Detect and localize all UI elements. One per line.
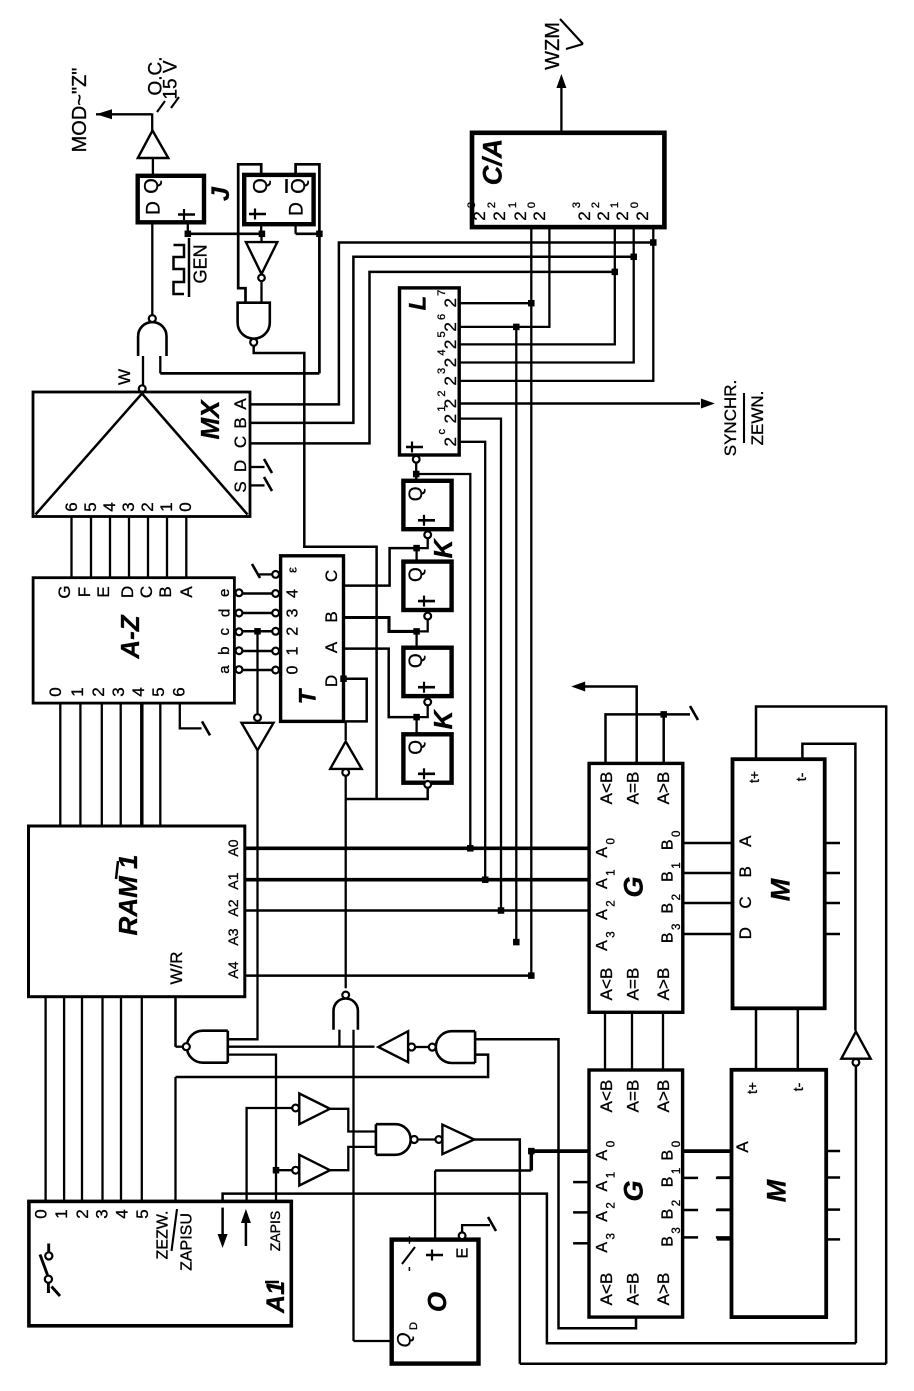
svg-text:B: B — [660, 1150, 677, 1161]
block A-Z — [33, 578, 234, 703]
svg-text:C: C — [736, 896, 755, 908]
svg-text:A>B: A>B — [654, 1273, 673, 1306]
svg-text:2: 2 — [594, 211, 613, 220]
wire RAM-A1blk — [141, 997, 143, 1202]
wire M2 dash — [717, 1208, 732, 1211]
junction A0-V2 — [467, 845, 474, 852]
svg-text:A: A — [594, 1242, 611, 1253]
wire a-e link — [242, 630, 272, 633]
svg-text:6: 6 — [436, 314, 448, 320]
wire NAND1 out to FF1 D — [151, 222, 153, 315]
wire a-e link — [242, 650, 272, 653]
svg-text:2: 2 — [89, 687, 108, 696]
wire NAND-W out — [176, 1046, 183, 1048]
svg-text:A: A — [594, 878, 611, 889]
wire: amp to FF1 Q — [152, 158, 154, 176]
arrowhead WZM — [556, 74, 566, 88]
wire G2-M2 dash — [683, 1177, 699, 1180]
junction c row — [254, 628, 261, 635]
svg-text:b: b — [216, 647, 233, 655]
pin circle A-Z a — [236, 666, 243, 673]
inverter INV-G (clock) — [260, 234, 262, 242]
svg-text:A: A — [594, 1211, 611, 1222]
wire C/A R2^1 — [459, 227, 634, 362]
svg-text:15 V: 15 V — [161, 60, 182, 99]
wire M1 nc stub — [825, 902, 840, 905]
junction L p2 — [513, 324, 520, 331]
buffer BUF2 — [299, 1155, 330, 1186]
wire c south — [256, 631, 258, 714]
wire G2 nc stub — [573, 1181, 589, 1184]
wire MX-AZ — [90, 517, 92, 579]
svg-text:0: 0 — [32, 1209, 51, 1218]
svg-text:A0: A0 — [225, 839, 241, 856]
junction zapis — [273, 1167, 280, 1174]
svg-text:ZAPIS: ZAPIS — [267, 1211, 283, 1251]
label L clk + — [411, 442, 413, 453]
svg-text:4: 4 — [285, 589, 302, 598]
MX triangle — [36, 394, 143, 515]
bubble INV-M — [853, 1059, 860, 1066]
MX pin D tick — [250, 466, 265, 468]
wire G1 A>B stub — [662, 714, 665, 763]
svg-text:1: 1 — [68, 687, 87, 696]
wire M2 nc stub — [826, 1238, 840, 1241]
wire bus3 — [520, 1363, 886, 1366]
wire MX-AZ — [70, 517, 72, 579]
svg-text:0: 0 — [629, 202, 641, 208]
svg-text:2: 2 — [530, 211, 549, 220]
svg-text:t+: t+ — [744, 1082, 760, 1094]
wire C/A R2^2 — [459, 227, 615, 344]
A1 arrow up — [241, 1209, 251, 1223]
svg-text:0: 0 — [606, 838, 618, 844]
svg-text:3: 3 — [119, 502, 138, 511]
svg-text:A=B: A=B — [623, 772, 642, 805]
label FF1 clk + — [183, 209, 185, 220]
wire M2 nc stub — [826, 1150, 840, 1153]
svg-text:6: 6 — [62, 502, 81, 511]
wire INV-T south — [228, 750, 258, 1039]
svg-text:1: 1 — [157, 502, 176, 511]
wire G2 B0 to M2 A — [683, 1149, 732, 1153]
junction B-2^1 — [630, 254, 637, 260]
wire FF2 Q loop — [238, 164, 261, 302]
nand NAND-G — [238, 303, 270, 339]
wire AZ pin6 tick — [180, 703, 202, 728]
svg-text:K: K — [428, 708, 458, 729]
wire M1 t- loop — [802, 744, 855, 1031]
svg-text:A: A — [231, 398, 250, 410]
wire bus3 up — [756, 707, 886, 1364]
wire bus3 riser — [519, 1171, 522, 1364]
flip-flop K box1 — [403, 481, 451, 529]
svg-text:1: 1 — [606, 1172, 618, 1178]
wire G cascade — [631, 1012, 633, 1070]
block L — [400, 288, 460, 455]
svg-text:B: B — [660, 932, 677, 943]
svg-text:A: A — [594, 1149, 611, 1160]
svg-text:Q: Q — [406, 740, 427, 755]
svg-text:0: 0 — [176, 502, 195, 511]
wire C/A L2^0 stub — [459, 227, 549, 327]
block G1 — [589, 763, 683, 1012]
wire MX B line — [250, 257, 634, 423]
wire M1 nc stub — [825, 933, 840, 936]
wire G2 nc stub — [573, 1211, 589, 1214]
wire L p7 — [459, 419, 501, 911]
wire INV-W to NAND3 — [415, 1046, 429, 1048]
pin circle A-Z b — [236, 647, 243, 654]
svg-text:A1: A1 — [262, 1281, 290, 1314]
svg-text:1: 1 — [671, 1168, 683, 1174]
wire M2 nc stub — [826, 1176, 840, 1179]
svg-text:2: 2 — [606, 900, 618, 906]
label O + — [431, 1250, 433, 1261]
junction L clk — [413, 471, 420, 478]
flip-flop FF1 — [138, 176, 204, 223]
svg-text:B: B — [660, 1209, 677, 1220]
svg-text:Q: Q — [395, 1332, 416, 1347]
svg-text:B: B — [156, 586, 175, 597]
svg-text:A: A — [322, 641, 341, 653]
wire MX-AZ — [147, 517, 149, 579]
wire M2 dash — [717, 1238, 732, 1241]
wire A1 pulse out — [223, 1194, 856, 1344]
wire M1 nc stub — [825, 842, 840, 845]
inverter INV2 — [442, 1125, 474, 1155]
wire T e tick — [259, 573, 273, 575]
bubble INV-K — [342, 769, 349, 776]
svg-text:2: 2 — [606, 1202, 618, 1208]
bubble K box2 out — [424, 613, 431, 620]
GEN label rule — [188, 238, 191, 297]
wire G1 A=B arrow — [585, 687, 637, 764]
node W circle — [139, 385, 146, 392]
svg-text:SYNCHR.: SYNCHR. — [721, 380, 740, 457]
pin circle A-Z d — [236, 610, 243, 617]
svg-text:A=B: A=B — [623, 1080, 642, 1113]
wire RAM-A1blk — [120, 997, 122, 1202]
svg-text:0: 0 — [285, 665, 302, 674]
svg-text:A<B: A<B — [597, 1273, 616, 1306]
svg-text:2: 2 — [285, 627, 302, 636]
svg-text:1: 1 — [671, 862, 683, 868]
bubble INV-W in — [408, 1044, 415, 1051]
bubble NAND-W — [183, 1043, 190, 1050]
wire a-e link — [242, 612, 272, 615]
wire T C out — [344, 548, 417, 586]
wire NAND-U leg2 — [352, 1030, 354, 1341]
wire MX-AZ — [128, 517, 130, 579]
wire NAND-W in2 (long) — [228, 1046, 375, 1048]
svg-text:4: 4 — [129, 687, 148, 696]
wire RAM-A1blk — [63, 997, 65, 1202]
svg-text:d: d — [216, 609, 233, 617]
bubble INV2 in — [435, 1136, 442, 1143]
wire clk east V2 — [416, 474, 470, 848]
svg-text:Q: Q — [141, 178, 163, 194]
junction K link 2 — [413, 628, 420, 635]
arrowhead MOD — [96, 109, 112, 119]
wire NAND-G out east — [254, 346, 377, 799]
wire bus2 riser — [855, 1066, 858, 1343]
block M2 — [732, 1070, 827, 1317]
svg-text:2: 2 — [671, 894, 683, 900]
wire node link — [435, 1169, 531, 1172]
A1 arrow down — [221, 1208, 224, 1236]
svg-text:2: 2 — [511, 211, 530, 220]
svg-text:0: 0 — [671, 831, 683, 837]
svg-text:1: 1 — [436, 406, 448, 412]
wire RAM A4 row — [245, 974, 532, 977]
wire buf1 out — [330, 1109, 376, 1132]
wire M1 nc stub — [825, 872, 840, 875]
label FF2 clk + — [254, 209, 256, 220]
svg-text:1: 1 — [507, 202, 519, 208]
svg-text:A<B: A<B — [597, 772, 616, 805]
svg-text:D: D — [118, 586, 137, 598]
junction C-2^2 — [612, 269, 619, 276]
wire M1-M2 b — [797, 1008, 800, 1070]
svg-text:T: T — [294, 687, 321, 704]
wire FF1 clock stub — [187, 222, 189, 234]
bubble NAND3 out — [429, 1044, 436, 1051]
wire GEN clock line — [188, 232, 262, 235]
svg-text:5: 5 — [149, 687, 168, 696]
junction A-2^0 — [650, 239, 657, 246]
SYNCHR rule — [743, 393, 745, 443]
wire L p6 SYNCHR — [459, 402, 700, 405]
svg-text:A: A — [177, 586, 196, 598]
svg-text:3: 3 — [436, 368, 448, 374]
wire box1 top — [415, 474, 417, 481]
wire MX-AZ — [166, 517, 168, 579]
bubble buf1 — [292, 1105, 299, 1112]
svg-text:ZEZW.: ZEZW. — [155, 1211, 172, 1260]
svg-text:2: 2 — [441, 414, 460, 423]
inverter INV-M — [841, 1032, 870, 1059]
svg-text:E: E — [94, 586, 113, 597]
inverter INV-K — [330, 741, 362, 769]
svg-text:B: B — [736, 866, 755, 877]
svg-text:Q: Q — [250, 178, 272, 194]
wire L p8 — [459, 442, 485, 880]
svg-text:2: 2 — [441, 358, 460, 367]
svg-text:C: C — [231, 436, 250, 448]
wire INV-K south — [345, 776, 347, 988]
wire: MOD output with arrow — [96, 113, 152, 115]
junction p2 end — [513, 939, 520, 946]
svg-text:0: 0 — [526, 202, 538, 208]
nand NAND-U (up) — [334, 999, 358, 1030]
WZM mark — [560, 19, 583, 44]
svg-text:C/A: C/A — [477, 139, 507, 186]
svg-text:Q: Q — [406, 567, 427, 582]
svg-text:-: - — [400, 1267, 417, 1272]
junction L p1 — [528, 300, 535, 307]
bubble buf2 — [292, 1167, 299, 1174]
svg-text:Q: Q — [406, 486, 427, 501]
svg-text:4: 4 — [100, 502, 119, 511]
svg-text:A-Z: A-Z — [115, 614, 145, 659]
svg-text:2: 2 — [73, 1209, 92, 1218]
svg-text:2: 2 — [441, 437, 460, 446]
svg-text:GEN: GEN — [190, 244, 210, 283]
nand NAND2 — [376, 1124, 411, 1155]
wire AZ-RAM — [101, 703, 103, 826]
wire T D loop — [344, 679, 367, 722]
svg-text:2: 2 — [486, 202, 498, 208]
junction A1 — [482, 876, 489, 883]
block A1 — [29, 1201, 291, 1325]
wire G2-M2 dash — [683, 1209, 699, 1212]
label K1 + — [423, 515, 425, 526]
svg-text:D: D — [322, 675, 341, 687]
svg-text:A>B: A>B — [654, 1080, 673, 1113]
svg-text:W/R: W/R — [167, 951, 186, 984]
svg-text:2: 2 — [138, 502, 157, 511]
block O — [392, 1240, 479, 1364]
bubble K box1 out — [424, 531, 431, 538]
svg-text:c: c — [216, 628, 233, 636]
wire RAM-A1blk — [101, 997, 103, 1202]
svg-text:M: M — [765, 878, 795, 901]
svg-text:2: 2 — [441, 322, 460, 331]
wire INV-G out — [260, 281, 262, 303]
wire RAM-A1blk — [81, 997, 83, 1202]
svg-text:Q: Q — [406, 653, 427, 668]
flip-flop FF2 (J divider) — [244, 175, 313, 224]
wire Qbar to NAND1 input — [160, 372, 319, 375]
wire AZ-RAM — [120, 703, 122, 826]
block C/A — [472, 133, 664, 227]
svg-text:3: 3 — [606, 1233, 618, 1239]
wire O clk riser — [434, 1171, 436, 1240]
wire MX-AZ — [185, 517, 187, 579]
bubble NAND1 — [149, 315, 156, 322]
pin circle T — [272, 590, 279, 597]
wire a-e link — [242, 592, 272, 595]
wire M2 nc stub — [826, 1208, 840, 1211]
svg-text:W: W — [115, 369, 134, 385]
wire NAND-U leg1 — [338, 1030, 340, 1047]
arrowhead SYNCHR — [701, 399, 715, 409]
junction Qbar/D — [316, 231, 323, 238]
wire O E tick — [462, 1225, 490, 1232]
wire a-e link — [242, 669, 272, 672]
svg-text:2: 2 — [470, 211, 489, 220]
svg-text:t-: t- — [793, 772, 809, 781]
svg-text:A=B: A=B — [623, 968, 642, 1001]
buffer BUF1 — [299, 1094, 330, 1125]
svg-text:WZM: WZM — [542, 22, 564, 70]
wire RAM A0 row — [245, 846, 589, 850]
wire FF2 D feedback — [294, 224, 296, 234]
bubble K box4 out — [424, 781, 431, 788]
svg-text:B: B — [660, 903, 677, 914]
svg-text:B: B — [660, 839, 677, 850]
svg-text:E: E — [455, 1248, 472, 1259]
wire MX A line — [250, 243, 653, 405]
svg-text:A>B: A>B — [654, 772, 673, 805]
junction FF2 clk — [259, 231, 266, 238]
wire D to inv — [345, 721, 347, 740]
svg-text:0: 0 — [46, 687, 65, 696]
pin circle A-Z e — [236, 589, 243, 596]
svg-text:4: 4 — [436, 349, 448, 355]
svg-text:D: D — [231, 460, 250, 472]
wire G1-M1 — [683, 933, 733, 936]
label K4 + — [423, 768, 425, 779]
wire NAND1 in legs — [142, 356, 144, 385]
svg-text:1: 1 — [52, 1209, 71, 1218]
15V mark — [171, 97, 179, 108]
svg-text:2: 2 — [590, 202, 602, 208]
svg-text:2: 2 — [441, 376, 460, 385]
wire T B out — [344, 618, 417, 632]
bubble INV-G — [258, 275, 265, 282]
svg-text:D: D — [736, 927, 755, 939]
svg-text:c: c — [436, 429, 448, 435]
svg-text:A<B: A<B — [597, 1080, 616, 1113]
wire buf2 out — [330, 1147, 376, 1170]
wire K link 3 — [417, 705, 428, 717]
svg-text:D: D — [144, 201, 165, 215]
wire box4 out — [346, 788, 428, 799]
svg-text:5: 5 — [81, 502, 100, 511]
label K2 + — [423, 596, 425, 607]
label K3 + — [423, 682, 425, 693]
wire G2A0 link — [530, 1151, 534, 1170]
wire L clk link — [415, 463, 417, 481]
wire L p1 south — [530, 303, 532, 975]
svg-text:t-: t- — [790, 1082, 806, 1091]
svg-text:A>B: A>B — [654, 968, 673, 1001]
svg-text:A<B: A<B — [597, 968, 616, 1001]
svg-text:ZAPISU: ZAPISU — [179, 1213, 196, 1271]
svg-text:2: 2 — [671, 1200, 683, 1206]
wire T A out — [344, 649, 417, 718]
wire AZ-RAM — [59, 703, 61, 826]
pin circle T — [272, 667, 279, 674]
junction FF1 clk — [185, 231, 192, 238]
junction K link 3 — [413, 714, 420, 721]
bubble O E — [459, 1232, 466, 1239]
OC mark — [157, 101, 165, 112]
svg-text:0: 0 — [671, 1141, 683, 1147]
svg-text:A: A — [594, 847, 611, 858]
wire buf2 in — [276, 1169, 292, 1171]
svg-text:D: D — [408, 1322, 420, 1330]
svg-text:ε: ε — [285, 567, 300, 573]
bubble NAND-U — [342, 992, 349, 999]
wire K link 1 — [417, 538, 428, 548]
svg-text:A3: A3 — [225, 928, 241, 945]
pin circle A-Z c — [236, 628, 243, 635]
buffer amplifier (to MOD) — [138, 131, 169, 159]
svg-text:7: 7 — [436, 290, 448, 296]
svg-text:3: 3 — [93, 1209, 112, 1218]
wire NAND3 in2 — [176, 1055, 489, 1077]
svg-text:A: A — [736, 835, 755, 847]
wire K link 2 — [417, 619, 428, 631]
svg-text:5: 5 — [133, 1209, 152, 1218]
svg-text:2: 2 — [436, 390, 448, 396]
A1 label rule — [172, 1209, 178, 1251]
svg-text:3: 3 — [671, 1227, 683, 1233]
block T — [281, 556, 344, 722]
